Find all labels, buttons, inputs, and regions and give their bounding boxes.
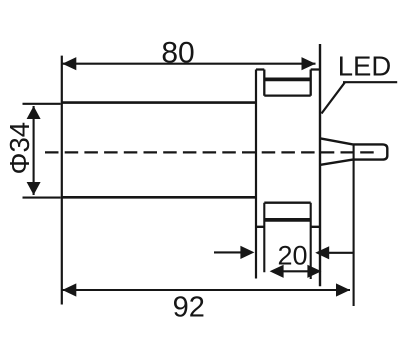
double arrow left head (points left) (270, 265, 284, 278)
top nut groove thick line (264, 78, 310, 82)
arrowhead phi34 up (27, 106, 41, 119)
arrowhead phi34 down (27, 182, 41, 195)
arrowhead 20 outer-left (points right) (240, 246, 254, 259)
double arrow right head (points right) (307, 265, 321, 278)
left extension line / barrel left edge (61, 56, 63, 305)
svg-text:80: 80 (161, 37, 194, 70)
20-dim double arrow shaft (272, 270, 319, 272)
top nut outline (256, 70, 320, 96)
arrowhead 92 right (336, 283, 350, 296)
svg-text:LED: LED (338, 51, 392, 82)
svg-text:Φ34: Φ34 (4, 122, 35, 175)
LED leader line (322, 82, 398, 113)
svg-text:20: 20 (277, 241, 307, 271)
connector nub (353, 144, 388, 159)
bottom nut outline (256, 203, 320, 227)
flange left edge / barrel front line (255, 70, 257, 279)
dimension 80 line (62, 63, 315, 65)
phi34 extension lines (23, 104, 61, 198)
centerline dashed (45, 151, 377, 153)
sensor barrel body (62, 103, 256, 198)
bottom nut inner walls + 20-dim extension lines (264, 203, 310, 279)
arrowhead 80 right (302, 57, 316, 70)
20-dim outer right arrow tail (328, 252, 354, 254)
20-dim outer left arrow tail (214, 251, 241, 253)
nose cone (321, 138, 353, 164)
92 right extension line (353, 144, 355, 306)
flange face right line (also 80-dim extension) (319, 44, 321, 286)
arrowhead 92 left (62, 283, 76, 296)
svg-text:92: 92 (173, 292, 205, 324)
bottom nut groove thick line (264, 218, 310, 222)
dimension 92 line (62, 289, 350, 291)
arrowhead 20 outer-right (points left) (315, 246, 329, 259)
arrowhead 80 left (62, 57, 76, 70)
phi34 dimension line (33, 106, 35, 195)
